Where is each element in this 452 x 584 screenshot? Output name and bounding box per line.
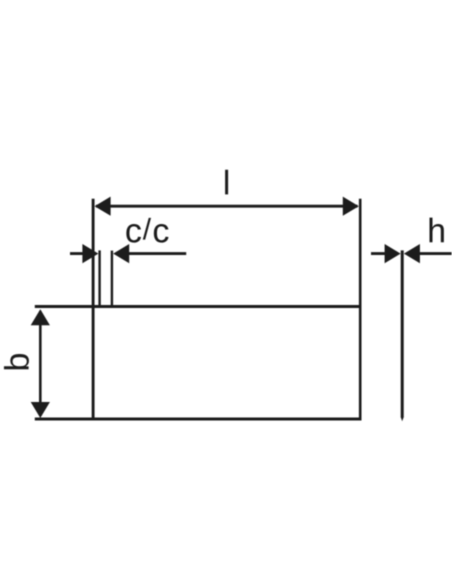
- arrowhead h left: [385, 244, 401, 263]
- board bottom edge: [35, 418, 362, 421]
- arrowhead l right: [343, 197, 359, 216]
- board left edge / extension line for l: [92, 199, 95, 421]
- groove line right (c/c): [111, 251, 113, 308]
- dimension c/c left tail: [70, 252, 96, 255]
- arrowhead b top: [31, 309, 50, 325]
- dimension line b: [39, 311, 42, 416]
- thickness line pointed tip: [401, 417, 404, 421]
- dimension h left tail: [371, 252, 396, 255]
- label c/c : letter c right: [154, 224, 169, 243]
- label c/c : letter c left: [126, 224, 141, 243]
- arrowhead b bottom: [31, 402, 50, 418]
- dimension line l: [96, 205, 358, 208]
- arrowhead h right: [404, 244, 420, 263]
- board right edge / extension line for l: [359, 199, 362, 421]
- thickness reference line h: [401, 250, 404, 417]
- arrowhead l left: [95, 197, 111, 216]
- label c/c : slash: [143, 218, 151, 240]
- arrowhead c/c right: [113, 244, 129, 263]
- label b (rotated 90deg CCW): [4, 354, 29, 369]
- dimension h right tail: [419, 252, 452, 255]
- board top edge: [35, 305, 362, 308]
- dimension c/c right tail: [128, 252, 186, 255]
- label h: [430, 218, 444, 243]
- label l: [225, 170, 228, 195]
- arrowhead c/c left: [82, 244, 98, 263]
- groove line left (c/c): [98, 250, 100, 308]
